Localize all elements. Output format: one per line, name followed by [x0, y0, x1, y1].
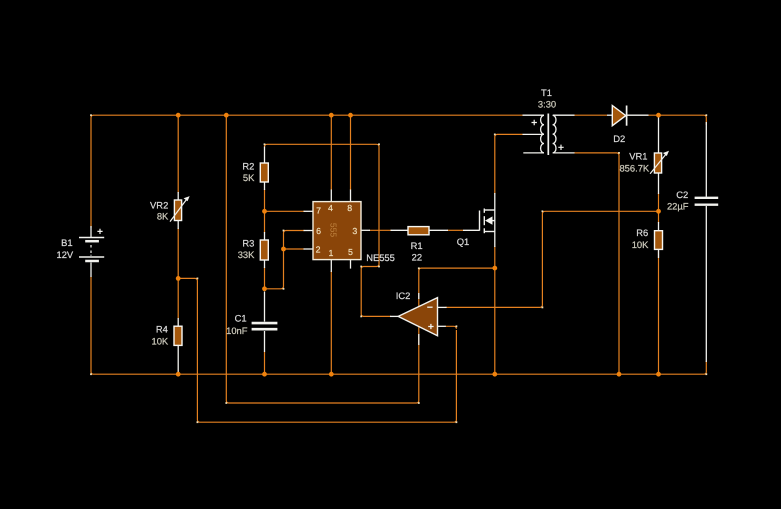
svg-text:33K: 33K [238, 249, 255, 260]
svg-text:R3: R3 [242, 237, 254, 248]
svg-text:2: 2 [316, 245, 321, 255]
svg-text:VR2: VR2 [150, 199, 168, 210]
svg-text:3:30: 3:30 [538, 98, 556, 109]
svg-text:D2: D2 [613, 133, 625, 144]
svg-text:856.7K: 856.7K [619, 163, 649, 174]
svg-text:10K: 10K [152, 335, 169, 346]
svg-text:6: 6 [316, 226, 321, 236]
svg-text:5K: 5K [243, 172, 255, 183]
svg-text:R1: R1 [411, 240, 423, 251]
svg-text:Q1: Q1 [457, 236, 470, 247]
svg-text:C2: C2 [676, 189, 688, 200]
svg-text:10K: 10K [632, 239, 649, 250]
svg-text:R2: R2 [242, 160, 254, 171]
svg-text:22: 22 [412, 252, 422, 263]
svg-text:7: 7 [316, 206, 321, 216]
svg-text:10nF: 10nF [226, 325, 248, 336]
svg-text:12V: 12V [57, 249, 74, 260]
svg-text:VR1: VR1 [629, 150, 647, 161]
svg-text:555: 555 [329, 223, 339, 238]
svg-text:B1: B1 [61, 237, 72, 248]
svg-text:NE555: NE555 [366, 252, 395, 263]
svg-text:22µF: 22µF [667, 200, 689, 211]
svg-text:8: 8 [347, 203, 352, 213]
svg-text:IC2: IC2 [396, 290, 411, 301]
svg-text:1: 1 [329, 248, 334, 258]
svg-text:8K: 8K [157, 211, 169, 222]
svg-text:R6: R6 [636, 227, 648, 238]
svg-text:T1: T1 [541, 87, 552, 98]
svg-text:C1: C1 [235, 313, 247, 324]
svg-text:R4: R4 [156, 324, 168, 335]
svg-text:4: 4 [328, 203, 333, 213]
svg-text:5: 5 [348, 247, 353, 257]
svg-text:3: 3 [352, 226, 357, 236]
